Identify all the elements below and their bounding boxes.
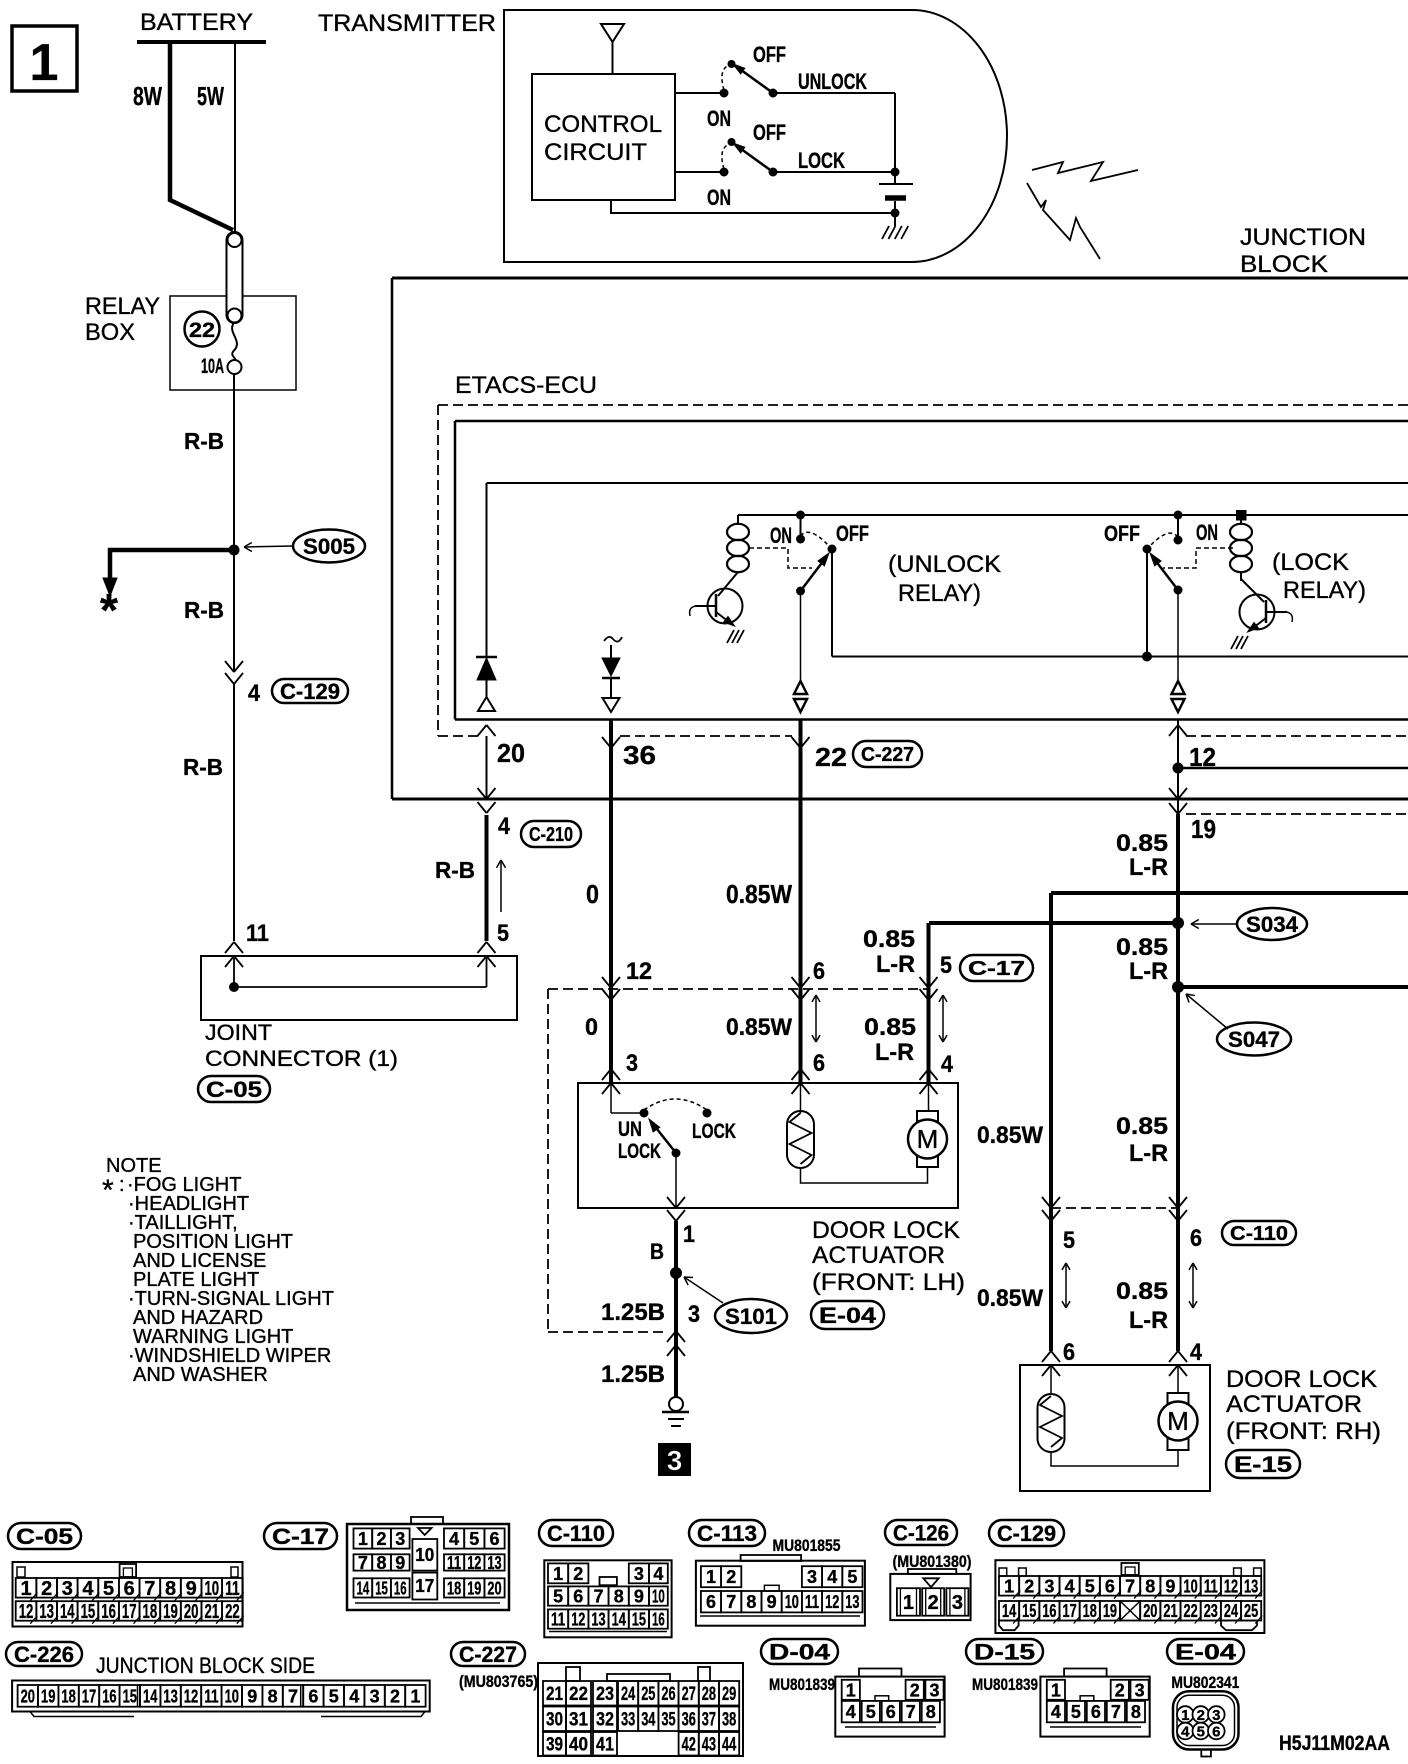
transmitter antenna <box>601 24 624 42</box>
svg-text:13: 13 <box>845 1592 859 1612</box>
svg-text:MU801839: MU801839 <box>972 1675 1038 1694</box>
svg-text:3: 3 <box>370 1686 380 1706</box>
ground for Q2 <box>1231 636 1238 649</box>
svg-text:3: 3 <box>929 1680 939 1700</box>
svg-text:2: 2 <box>573 1564 583 1584</box>
connector C-226 pinout junction block side <box>6 1642 82 1666</box>
svg-text:R-B: R-B <box>184 428 224 454</box>
svg-text:3: 3 <box>667 1445 683 1476</box>
svg-text:6: 6 <box>308 1686 318 1706</box>
svg-text:ON: ON <box>707 185 731 210</box>
svg-text:1: 1 <box>1181 1707 1189 1724</box>
svg-text:12: 12 <box>467 1553 481 1573</box>
svg-text:1: 1 <box>903 1592 914 1614</box>
svg-text:13: 13 <box>1244 1576 1258 1596</box>
svg-text:20: 20 <box>184 1601 199 1623</box>
svg-text:H5J11M02AA: H5J11M02AA <box>1279 1732 1390 1755</box>
svg-text:5: 5 <box>866 1702 876 1722</box>
svg-text:22: 22 <box>225 1601 240 1623</box>
svg-text:5: 5 <box>1197 1724 1205 1741</box>
svg-text:JUNCTION: JUNCTION <box>1240 224 1366 251</box>
splice S005 <box>229 545 240 556</box>
svg-text:DOOR LOCK: DOOR LOCK <box>1226 1366 1377 1393</box>
svg-text:B: B <box>650 1239 664 1264</box>
svg-text:5W: 5W <box>197 81 224 111</box>
unlock relay switch <box>796 535 805 544</box>
svg-text:1.25B: 1.25B <box>601 1361 665 1388</box>
connector C-227 pinout <box>451 1642 525 1666</box>
svg-text:4: 4 <box>941 1051 954 1078</box>
transistor Q1 unlock driver <box>708 589 743 624</box>
svg-text:2: 2 <box>1197 1707 1205 1724</box>
node on rail at unlock switch <box>796 511 805 520</box>
svg-text:E-04: E-04 <box>819 1303 877 1328</box>
svg-text:ON: ON <box>1196 520 1218 545</box>
radio wave symbol lower <box>1027 183 1100 259</box>
LH lock motor M <box>928 1083 930 1111</box>
svg-text:(FRONT: RH): (FRONT: RH) <box>1226 1418 1381 1445</box>
svg-text:5: 5 <box>497 920 509 947</box>
transmitter ground <box>894 213 896 226</box>
svg-text:2: 2 <box>390 1686 400 1706</box>
svg-text:UN: UN <box>618 1118 642 1141</box>
svg-text:10: 10 <box>225 1686 239 1706</box>
arrow updown pin6 <box>815 997 817 1040</box>
transistor Q2 lock driver <box>1240 595 1275 630</box>
svg-text:19: 19 <box>41 1686 55 1706</box>
svg-text:6: 6 <box>813 958 825 985</box>
svg-text:11: 11 <box>447 1553 461 1573</box>
lock switch in transmitter <box>675 171 724 173</box>
svg-text:8: 8 <box>268 1686 278 1706</box>
svg-text:24: 24 <box>621 1684 635 1705</box>
svg-text:44: 44 <box>722 1735 736 1756</box>
svg-text:MU802341: MU802341 <box>1171 1673 1239 1692</box>
svg-text:9: 9 <box>767 1592 777 1612</box>
svg-text:M: M <box>917 1124 939 1154</box>
wire 5W from battery <box>234 42 236 233</box>
svg-text:10: 10 <box>1184 1576 1198 1596</box>
svg-text:6: 6 <box>1212 1724 1220 1741</box>
svg-text:C-110: C-110 <box>1230 1223 1288 1245</box>
ECU pin 12 wire to junction block <box>1177 720 1179 815</box>
svg-text:14: 14 <box>1002 1601 1016 1621</box>
svg-text:14: 14 <box>143 1686 157 1706</box>
svg-text:9: 9 <box>1165 1576 1175 1596</box>
lock relay switch <box>1174 536 1183 545</box>
svg-text:2: 2 <box>41 1578 52 1600</box>
svg-text:24: 24 <box>1224 1601 1238 1621</box>
ECU pin 36 wire 0 black <box>609 720 613 1083</box>
svg-text:1.25B: 1.25B <box>601 1299 665 1326</box>
unlock relay coil <box>737 515 739 524</box>
control circuit box <box>532 74 675 200</box>
splice S047 <box>1172 981 1184 993</box>
svg-text:4: 4 <box>1051 1702 1061 1722</box>
svg-text:4: 4 <box>82 1578 94 1600</box>
svg-text:35: 35 <box>661 1710 675 1731</box>
svg-text:L-R: L-R <box>1129 854 1168 881</box>
svg-text:C-126: C-126 <box>893 1520 949 1545</box>
svg-text:6: 6 <box>1063 1339 1075 1366</box>
svg-text:D-04: D-04 <box>769 1639 831 1664</box>
fuse 22 10A in relay box <box>232 322 237 361</box>
ECU internal supply rail upper <box>487 482 1408 484</box>
svg-text:R-B: R-B <box>183 754 223 780</box>
svg-text:4: 4 <box>846 1702 856 1722</box>
svg-text:22: 22 <box>189 319 215 342</box>
svg-text:C-227: C-227 <box>459 1642 517 1667</box>
RH door ajar resistor <box>1050 1365 1052 1394</box>
svg-text:36: 36 <box>682 1710 696 1731</box>
svg-text:C-110: C-110 <box>547 1521 605 1546</box>
svg-text:40: 40 <box>569 1735 588 1756</box>
svg-text:0.85: 0.85 <box>1116 934 1168 961</box>
svg-text:7: 7 <box>1111 1702 1121 1722</box>
ECU pin 22 wire 0.85W <box>799 720 803 1083</box>
svg-text:5: 5 <box>847 1567 857 1587</box>
RH actuator internal wire <box>1051 1450 1178 1466</box>
svg-text:22: 22 <box>1184 1601 1198 1621</box>
connector C-113 pinout <box>689 1520 765 1546</box>
svg-text:4: 4 <box>1181 1724 1190 1741</box>
svg-text:1: 1 <box>683 1221 695 1248</box>
svg-text:0: 0 <box>585 1014 598 1041</box>
joint connector (1) C-05 <box>201 956 517 1020</box>
svg-text:L-R: L-R <box>1129 958 1168 985</box>
svg-text:23: 23 <box>596 1684 614 1705</box>
svg-text:18: 18 <box>143 1601 158 1623</box>
svg-text:BATTERY: BATTERY <box>140 9 253 36</box>
svg-text:17: 17 <box>82 1686 96 1706</box>
svg-text:L-R: L-R <box>876 951 915 978</box>
svg-text:36: 36 <box>623 740 656 770</box>
svg-text:42: 42 <box>682 1735 696 1756</box>
svg-text:(UNLOCK: (UNLOCK <box>888 551 1001 578</box>
svg-text:CONTROL: CONTROL <box>544 111 662 138</box>
svg-text:C-210: C-210 <box>529 824 573 846</box>
svg-text:22: 22 <box>569 1684 588 1705</box>
splice S101 <box>670 1267 682 1279</box>
svg-text:6: 6 <box>813 1050 825 1077</box>
svg-text:5: 5 <box>1063 1227 1075 1254</box>
svg-text:L-R: L-R <box>875 1039 914 1066</box>
svg-text:20: 20 <box>487 1578 501 1598</box>
splice S034 <box>1172 917 1184 929</box>
svg-text:4: 4 <box>449 1529 459 1549</box>
svg-text:31: 31 <box>569 1710 588 1731</box>
svg-text:19: 19 <box>1103 1601 1117 1621</box>
svg-text:11: 11 <box>551 1610 565 1630</box>
svg-text:C-05: C-05 <box>16 1524 73 1549</box>
svg-text:0.85W: 0.85W <box>726 879 792 909</box>
svg-text:8: 8 <box>377 1553 387 1573</box>
svg-text:MU801839: MU801839 <box>769 1675 835 1694</box>
svg-text:TRANSMITTER: TRANSMITTER <box>318 10 496 37</box>
svg-text:6: 6 <box>1190 1225 1202 1252</box>
lock relay coil <box>1236 510 1247 521</box>
wire to fog light etc (asterisk) <box>110 550 234 578</box>
svg-text:2: 2 <box>1024 1576 1034 1596</box>
svg-text:CIRCUIT: CIRCUIT <box>544 139 647 166</box>
svg-text:S034: S034 <box>1246 912 1299 937</box>
svg-text:38: 38 <box>722 1710 736 1731</box>
svg-text:L-R: L-R <box>1129 1140 1168 1167</box>
svg-text:3: 3 <box>1044 1576 1054 1596</box>
ground G3 <box>669 1397 683 1411</box>
svg-text:R-B: R-B <box>435 857 475 883</box>
wire from right to front RH actuator <box>1051 891 1408 895</box>
junction block side dashed line at pin 19 <box>1186 813 1408 815</box>
svg-text:0: 0 <box>586 879 599 909</box>
svg-text:0.85: 0.85 <box>1116 1278 1168 1305</box>
svg-text:28: 28 <box>702 1684 716 1705</box>
svg-text:3: 3 <box>952 1592 963 1614</box>
connector E-04 pinout <box>1167 1639 1244 1664</box>
svg-text:3: 3 <box>634 1564 644 1584</box>
svg-text:OFF: OFF <box>753 42 786 67</box>
svg-text:10: 10 <box>204 1578 219 1600</box>
svg-text:8: 8 <box>165 1578 176 1600</box>
svg-text:18: 18 <box>61 1686 75 1706</box>
svg-text:15: 15 <box>81 1601 96 1623</box>
wire R-B fuse to splice S005 <box>233 374 235 550</box>
svg-text:0.85W: 0.85W <box>977 1122 1043 1149</box>
svg-text:9: 9 <box>186 1578 197 1600</box>
svg-text:C-17: C-17 <box>968 958 1025 980</box>
svg-text:JOINT: JOINT <box>205 1020 272 1045</box>
svg-text:15: 15 <box>1022 1601 1036 1621</box>
svg-text:8: 8 <box>1145 1576 1155 1596</box>
door lock actuator LH box <box>578 1083 958 1208</box>
svg-text:10: 10 <box>785 1592 799 1612</box>
svg-text:0.85: 0.85 <box>1116 830 1168 857</box>
svg-text:27: 27 <box>682 1684 696 1705</box>
svg-text:37: 37 <box>702 1710 716 1731</box>
svg-text:20: 20 <box>21 1686 35 1706</box>
svg-text:S047: S047 <box>1228 1027 1280 1052</box>
svg-text:41: 41 <box>596 1735 614 1756</box>
svg-text:1: 1 <box>410 1686 420 1706</box>
svg-text:12: 12 <box>571 1610 585 1630</box>
svg-text:21: 21 <box>204 1601 219 1623</box>
svg-text:4: 4 <box>248 680 261 707</box>
wire 0.85 L-R pin 19 to S034 <box>1176 814 1180 923</box>
ECU internal rail to relays <box>738 514 1408 516</box>
svg-text:C-129: C-129 <box>280 679 340 704</box>
svg-text:ACTUATOR: ACTUATOR <box>1226 1391 1362 1418</box>
svg-text:4: 4 <box>1190 1339 1203 1366</box>
svg-text:9: 9 <box>634 1587 644 1607</box>
svg-text:12: 12 <box>19 1601 34 1623</box>
svg-text:14: 14 <box>612 1610 626 1630</box>
wire R-B S005 to connector C-129 pin 4 <box>233 550 235 672</box>
svg-text:3: 3 <box>62 1578 73 1600</box>
svg-text:10: 10 <box>415 1545 434 1565</box>
svg-text:6: 6 <box>124 1578 135 1600</box>
svg-text:19: 19 <box>163 1601 178 1623</box>
svg-text:14: 14 <box>357 1578 370 1598</box>
connector D-04 pinout <box>761 1639 838 1664</box>
svg-text:M: M <box>1167 1406 1189 1436</box>
RH lock motor M <box>1177 1365 1179 1393</box>
svg-text:12: 12 <box>626 958 652 985</box>
svg-text:C-227: C-227 <box>861 744 914 766</box>
svg-text:5: 5 <box>940 952 952 979</box>
svg-text:1: 1 <box>846 1680 856 1700</box>
svg-text:0.85: 0.85 <box>864 1014 916 1041</box>
svg-text:3: 3 <box>626 1050 638 1077</box>
svg-text:5: 5 <box>1071 1702 1081 1722</box>
svg-text:1: 1 <box>706 1567 716 1587</box>
svg-text:2: 2 <box>1115 1680 1125 1700</box>
svg-text:33: 33 <box>621 1710 635 1731</box>
connector C-126 pinout <box>885 1520 957 1545</box>
svg-text:AND WASHER: AND WASHER <box>133 1364 268 1386</box>
svg-text:15: 15 <box>375 1578 388 1598</box>
svg-text:16: 16 <box>652 1610 665 1630</box>
door lock actuator RH box <box>1042 1351 1051 1362</box>
svg-text:6: 6 <box>1105 1576 1115 1596</box>
wire R-B C-129 to joint connector pin 11 <box>233 684 235 941</box>
wire S047 down to door lock actuator RH <box>1176 987 1180 1351</box>
svg-text:C-113: C-113 <box>697 1521 757 1546</box>
radio wave symbol upper <box>1032 162 1138 181</box>
svg-text:22: 22 <box>815 742 847 772</box>
svg-text:0.85: 0.85 <box>1116 1113 1168 1140</box>
ground for Q1 <box>727 630 734 643</box>
wire 0.85 L-R to C-17 pin 5 <box>927 923 931 1083</box>
svg-text:11: 11 <box>805 1592 819 1612</box>
svg-text:OFF: OFF <box>1104 521 1140 546</box>
svg-text:1: 1 <box>358 1529 368 1549</box>
svg-text:3: 3 <box>1212 1707 1220 1724</box>
svg-text:29: 29 <box>722 1684 736 1705</box>
wire unlock relay OFF contact to output rail <box>831 549 833 657</box>
LH door ajar resistor <box>787 1111 814 1168</box>
svg-text:11: 11 <box>1204 1576 1218 1596</box>
svg-text:3: 3 <box>807 1567 817 1587</box>
svg-text:7: 7 <box>1125 1576 1135 1596</box>
svg-text:11: 11 <box>246 920 269 947</box>
svg-text:2: 2 <box>377 1529 387 1549</box>
connector C-17 pinout <box>264 1523 337 1549</box>
zener diode D2 to pin 36 <box>604 637 622 642</box>
LH actuator internal wire <box>801 1167 928 1183</box>
svg-text:5: 5 <box>469 1529 479 1549</box>
svg-text:18: 18 <box>447 1578 461 1598</box>
svg-text:34: 34 <box>641 1710 655 1731</box>
svg-text:4: 4 <box>498 813 511 840</box>
svg-text:12: 12 <box>1224 1576 1238 1596</box>
svg-text:14: 14 <box>60 1601 75 1623</box>
svg-text:16: 16 <box>102 1686 116 1706</box>
svg-text:16: 16 <box>1042 1601 1056 1621</box>
connector C-110 pinout <box>539 1520 613 1546</box>
transmitter common wire <box>891 209 900 218</box>
arrow updown C-17 <box>942 997 944 1040</box>
node on rail at lock switch <box>1174 511 1183 520</box>
wire 8W from battery <box>170 42 233 230</box>
svg-text:8: 8 <box>746 1592 756 1612</box>
svg-text:32: 32 <box>596 1710 614 1731</box>
wire lock relay to pin 12 <box>1177 590 1179 681</box>
svg-text:15: 15 <box>632 1610 646 1630</box>
svg-text:R-B: R-B <box>184 597 224 623</box>
svg-text:0.85: 0.85 <box>863 926 915 953</box>
svg-text:L-R: L-R <box>1129 1307 1168 1334</box>
svg-text:11: 11 <box>204 1686 218 1706</box>
svg-text:(MU803765): (MU803765) <box>459 1672 538 1691</box>
svg-text:6: 6 <box>886 1702 896 1722</box>
svg-text:13: 13 <box>163 1686 177 1706</box>
svg-text:13: 13 <box>591 1610 605 1630</box>
svg-text:6: 6 <box>573 1587 583 1607</box>
svg-text:8: 8 <box>1131 1702 1141 1722</box>
svg-text:RELAY: RELAY <box>85 293 160 320</box>
svg-text:LOCK: LOCK <box>618 1140 661 1163</box>
svg-text:BOX: BOX <box>85 319 135 346</box>
svg-text:*: * <box>102 1174 114 1207</box>
svg-text:E-15: E-15 <box>1234 1452 1292 1477</box>
svg-text:10: 10 <box>652 1587 665 1607</box>
svg-text:4: 4 <box>827 1567 837 1587</box>
svg-text:0.85W: 0.85W <box>726 1014 792 1041</box>
door lock actuator LH dashed enclosure <box>547 989 549 1332</box>
svg-text:6: 6 <box>706 1592 716 1612</box>
svg-text:BLOCK: BLOCK <box>1240 251 1328 278</box>
svg-text:19: 19 <box>467 1578 481 1598</box>
svg-text:20: 20 <box>497 738 525 768</box>
svg-text:DOOR LOCK: DOOR LOCK <box>812 1217 960 1244</box>
svg-text:CONNECTOR (1): CONNECTOR (1) <box>205 1046 398 1071</box>
relay box <box>170 296 296 390</box>
transmitter enclosure <box>504 10 1007 262</box>
svg-text:16: 16 <box>101 1601 116 1623</box>
svg-text:5: 5 <box>553 1587 563 1607</box>
svg-text:1: 1 <box>553 1564 563 1584</box>
svg-text:10A: 10A <box>201 355 224 378</box>
ECU internal output rail <box>832 656 1408 658</box>
svg-text:OFF: OFF <box>836 521 869 546</box>
svg-text:D-15: D-15 <box>974 1639 1035 1664</box>
svg-text:21: 21 <box>546 1684 563 1705</box>
svg-text:25: 25 <box>641 1684 655 1705</box>
svg-text:2: 2 <box>726 1567 736 1587</box>
svg-text:30: 30 <box>546 1710 563 1731</box>
svg-text:(LOCK: (LOCK <box>1272 549 1349 576</box>
svg-text:8W: 8W <box>133 81 162 111</box>
svg-text:13: 13 <box>39 1601 54 1623</box>
connector C-129 pinout <box>989 1520 1064 1546</box>
diode D1 to pin 20 <box>486 483 488 657</box>
svg-text:17: 17 <box>415 1576 434 1596</box>
wire unlock relay to pin 22 <box>800 591 802 681</box>
svg-text:17: 17 <box>1063 1601 1077 1621</box>
svg-text:C-05: C-05 <box>206 1077 262 1102</box>
svg-text:21: 21 <box>1163 1601 1177 1621</box>
fusible link connector <box>227 232 243 323</box>
branch to rear door circuits <box>1173 763 1184 774</box>
svg-text:7: 7 <box>593 1587 603 1607</box>
svg-text:(FRONT: LH): (FRONT: LH) <box>812 1269 965 1296</box>
svg-text:UNLOCK: UNLOCK <box>798 69 867 94</box>
svg-text:5: 5 <box>103 1578 114 1600</box>
svg-text::: : <box>119 1174 125 1196</box>
svg-text:ETACS-ECU: ETACS-ECU <box>455 372 597 399</box>
svg-text:39: 39 <box>546 1735 563 1756</box>
svg-text:6: 6 <box>489 1529 499 1549</box>
